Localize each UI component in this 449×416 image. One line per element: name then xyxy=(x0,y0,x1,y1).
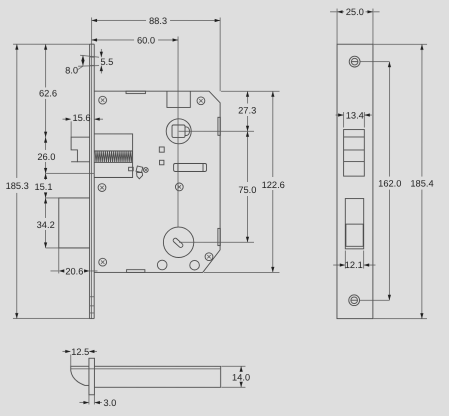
dim 27.3 xyxy=(238,91,256,131)
right view latch cutout xyxy=(344,130,365,177)
dim 3.0 xyxy=(79,395,116,408)
dim 5.5 xyxy=(78,49,113,74)
ext line hub center xyxy=(179,130,254,132)
svg-text:122.6: 122.6 xyxy=(262,180,285,190)
top edge notch xyxy=(167,91,190,107)
right view faceplate xyxy=(337,44,373,318)
svg-text:8.0: 8.0 xyxy=(65,66,78,76)
svg-text:88.3: 88.3 xyxy=(149,16,167,26)
lock case outline xyxy=(94,91,220,272)
dim 13.4 xyxy=(336,110,372,127)
svg-text:27.3: 27.3 xyxy=(238,105,256,115)
dim 75.0 xyxy=(238,131,256,242)
svg-text:60.0: 60.0 xyxy=(137,35,155,45)
cylinder circle xyxy=(163,227,193,257)
screw ML xyxy=(98,184,106,192)
ext line cylinder center xyxy=(179,241,254,243)
dim 12.5 xyxy=(62,347,97,367)
faceplate side view xyxy=(90,44,95,318)
deadbolt link bar xyxy=(174,163,207,171)
dim 25.0 xyxy=(330,7,380,44)
svg-text:12.5: 12.5 xyxy=(71,347,89,357)
spindle hub circle xyxy=(166,119,191,144)
svg-text:15.1: 15.1 xyxy=(34,182,52,192)
svg-text:26.0: 26.0 xyxy=(37,152,55,162)
svg-text:162.0: 162.0 xyxy=(378,179,401,189)
dim 15.1 xyxy=(34,173,89,198)
spindle hub side lobe xyxy=(185,127,190,136)
svg-text:15.6: 15.6 xyxy=(72,113,90,123)
pawl drop shape xyxy=(137,173,143,179)
svg-text:75.0: 75.0 xyxy=(238,185,256,195)
faceplate screw hole marks bottom xyxy=(90,297,95,313)
dim 15.6 xyxy=(63,113,104,137)
cylinder keyway xyxy=(172,237,183,248)
small square B xyxy=(160,160,164,165)
cylinder fixing circle left xyxy=(157,260,167,270)
right view deadbolt cutout xyxy=(345,199,363,249)
svg-text:34.2: 34.2 xyxy=(37,220,55,230)
svg-text:25.0: 25.0 xyxy=(346,7,364,17)
dim 62.6 xyxy=(39,44,57,137)
dim 60.0 xyxy=(92,35,179,45)
latch bolt projected xyxy=(71,137,90,162)
screw MC xyxy=(175,183,183,191)
pawl pivot screw xyxy=(143,168,148,173)
centerline 60 backset xyxy=(177,36,179,227)
right edge tab lower xyxy=(218,228,220,245)
small square A xyxy=(159,147,164,152)
screw TL xyxy=(99,96,107,104)
ext line case top right xyxy=(221,90,280,92)
deadbolt projected xyxy=(59,198,90,248)
pawl tilted square xyxy=(136,166,143,173)
svg-text:3.0: 3.0 xyxy=(103,398,116,408)
dim 88.3 xyxy=(92,16,221,91)
dim 20.6 xyxy=(50,248,97,276)
latch guide box xyxy=(94,134,132,178)
ext line case bottom right xyxy=(204,271,279,273)
bottom view latch tip xyxy=(71,366,89,385)
screw TR xyxy=(197,97,205,105)
dim 8.0 leader xyxy=(65,55,84,75)
svg-text:13.4: 13.4 xyxy=(346,110,364,120)
screw BR xyxy=(205,253,213,261)
bottom view case xyxy=(71,366,221,387)
dim 185.3 xyxy=(6,44,90,318)
right view screw bottom xyxy=(349,295,360,306)
dim 185.4 xyxy=(373,44,433,318)
screw BL xyxy=(99,258,107,266)
dim 26.0 xyxy=(37,137,94,173)
top edge tab xyxy=(126,91,145,93)
svg-text:5.5: 5.5 xyxy=(100,57,113,67)
cylinder fixing circle right xyxy=(190,260,200,270)
dim 162.0 xyxy=(360,62,402,301)
latch spring xyxy=(94,151,132,162)
dim 14.0 xyxy=(221,366,250,387)
dim 12.1 xyxy=(333,251,375,271)
faceplate screw hole marks top xyxy=(90,57,95,66)
spindle hub square xyxy=(172,125,185,137)
svg-text:14.0: 14.0 xyxy=(232,372,250,382)
svg-text:12.1: 12.1 xyxy=(345,260,363,270)
right view screw top xyxy=(349,56,360,67)
latch box side tab xyxy=(129,167,134,171)
dim 34.2 xyxy=(37,198,59,248)
svg-text:185.4: 185.4 xyxy=(410,179,433,189)
bottom view faceplate strip xyxy=(89,358,95,395)
dim 122.6 xyxy=(262,91,285,272)
right edge tab upper xyxy=(218,117,220,135)
svg-text:62.6: 62.6 xyxy=(39,88,57,98)
svg-text:20.6: 20.6 xyxy=(65,266,83,276)
svg-text:185.3: 185.3 xyxy=(6,181,29,191)
bottom edge tab xyxy=(127,270,145,273)
